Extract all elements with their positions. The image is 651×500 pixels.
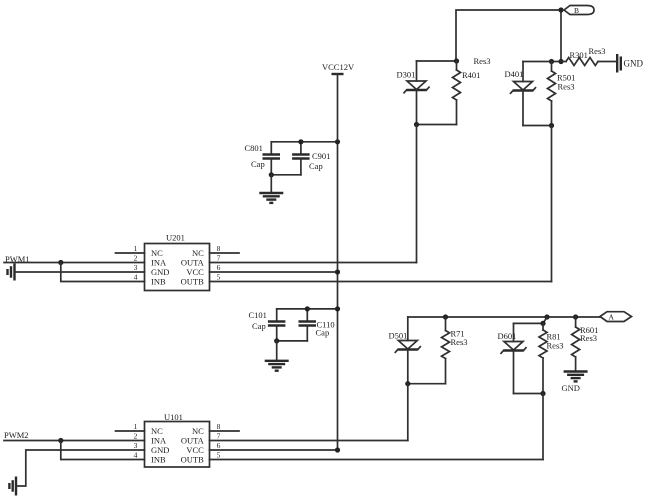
node C901 top (298, 139, 303, 144)
resistor R71 (442, 317, 450, 384)
node R71 top (443, 314, 448, 319)
wire ground to U201 GND (15, 271, 145, 273)
wire PWM1 to INB (61, 263, 145, 282)
wire U101 OUTB (210, 459, 544, 461)
wire U201 OUTB (210, 281, 552, 283)
wire PWM1 to INA (4, 262, 145, 264)
svg-text:OUTA: OUTA (181, 436, 205, 446)
wire PWM2 to INB (61, 441, 145, 460)
svg-text:D601: D601 (498, 331, 517, 341)
svg-text:7: 7 (217, 432, 221, 441)
U101 pin numbers right (217, 422, 221, 460)
svg-text:C901: C901 (312, 151, 330, 161)
wire U201 VCC to rail (210, 271, 338, 273)
node VCC lower (335, 447, 340, 452)
node C101 bottom (274, 338, 279, 343)
resistor R601 (572, 317, 580, 371)
svg-text:OUTA: OUTA (181, 258, 205, 268)
node VCC upper (335, 269, 340, 274)
node C110 top (305, 306, 310, 311)
svg-text:U201: U201 (166, 233, 185, 243)
svg-text:Res3: Res3 (451, 337, 468, 347)
wire rail bottom of D601/R81 (514, 393, 544, 395)
node at R501 top (549, 59, 554, 64)
svg-text:INB: INB (151, 455, 166, 465)
wire OUTA up to D301 group (416, 125, 418, 263)
svg-text:8: 8 (217, 244, 221, 253)
resistor R401 (453, 61, 461, 125)
wire top rail caps lower (277, 308, 338, 310)
svg-text:INA: INA (151, 436, 167, 446)
wire OUTB up to D401 group (551, 126, 553, 282)
node junction B (558, 7, 563, 12)
wire to upper ground (270, 175, 272, 192)
svg-text:1: 1 (134, 244, 138, 253)
svg-text:VCC: VCC (186, 267, 204, 277)
port A (600, 312, 632, 322)
IC U101 (145, 422, 210, 468)
svg-text:OUTB: OUTB (181, 277, 204, 287)
node bottom D301 (414, 122, 419, 127)
svg-text:Cap: Cap (309, 161, 323, 171)
node at B drop (558, 59, 563, 64)
wire rail top of D601 (514, 317, 548, 323)
wire rail bottom of D501/R71 (408, 383, 446, 385)
svg-text:5: 5 (217, 451, 221, 460)
svg-text:Cap: Cap (316, 328, 330, 338)
svg-text:C101: C101 (249, 310, 267, 320)
wire rail bottom of D401/R501 (523, 125, 552, 127)
wire PWM2 to INA (4, 440, 145, 442)
wire U101 OUTA (210, 440, 408, 442)
svg-text:PWM2: PWM2 (4, 430, 29, 440)
svg-text:6: 6 (217, 263, 221, 272)
ground lower caps (265, 361, 289, 371)
node PWM2 branch (58, 438, 63, 443)
svg-text:GND: GND (151, 267, 169, 277)
wire U101 VCC to rail (210, 449, 338, 451)
svg-text:Res3: Res3 (547, 341, 564, 351)
svg-text:NC: NC (192, 248, 204, 258)
svg-text:4: 4 (134, 273, 138, 282)
diode D501 (395, 317, 420, 384)
svg-text:NC: NC (151, 426, 163, 436)
diode D301 (404, 61, 429, 125)
svg-text:2: 2 (134, 432, 138, 441)
diode D601 (501, 323, 526, 393)
wire bottom rail caps lower (277, 340, 308, 342)
U201 pin 1 stub (116, 252, 145, 254)
capacitor C801 (263, 142, 281, 175)
port B (564, 6, 594, 15)
node bottom D501 (405, 381, 410, 386)
wire ground to U101 GND (16, 450, 145, 486)
node R81 top (544, 314, 549, 319)
node bottom R501 (549, 123, 554, 128)
node at R401 top (454, 58, 459, 63)
svg-text:A: A (609, 313, 615, 322)
svg-text:Res3: Res3 (580, 333, 597, 343)
svg-text:B: B (574, 6, 579, 15)
svg-text:R401: R401 (462, 70, 480, 80)
node rail VCC upper caps (335, 139, 340, 144)
node bottom R81 (540, 391, 545, 396)
svg-text:Cap: Cap (251, 159, 265, 169)
wire rail bottom of D301/R401 (417, 124, 457, 126)
wire to lower ground (276, 341, 278, 360)
wire top rail caps upper (271, 141, 337, 143)
diode D401 (511, 62, 536, 126)
svg-text:U101: U101 (164, 412, 183, 422)
node PWM1 branch (58, 260, 63, 265)
U201 pin 8 stub (210, 252, 240, 254)
ground R601 (564, 372, 588, 382)
wire OUTA lower up (407, 384, 409, 441)
wire bottom rail caps upper (271, 174, 301, 176)
wire VCC12V rail (337, 74, 339, 450)
U101 pin 1 stub (116, 430, 145, 432)
svg-text:6: 6 (217, 441, 221, 450)
capacitor C101 (268, 309, 286, 341)
svg-text:1: 1 (134, 422, 138, 431)
U201 pin numbers right (217, 244, 221, 282)
svg-text:7: 7 (217, 254, 221, 263)
svg-text:NC: NC (151, 248, 163, 258)
power port GND right (617, 54, 643, 73)
svg-text:NC: NC (192, 426, 204, 436)
U101 pin numbers left (134, 422, 138, 460)
svg-text:Res3: Res3 (589, 46, 606, 56)
U201 pin numbers left (134, 244, 138, 282)
wire main lower net to port A (408, 316, 600, 318)
resistor R81 (539, 323, 547, 393)
svg-text:VCC12V: VCC12V (322, 62, 355, 72)
capacitor C901 (292, 142, 310, 175)
power port VCC12V (322, 62, 355, 74)
wire rail top of D401/R501 (523, 61, 561, 63)
resistor R501 (548, 62, 556, 126)
svg-text:8: 8 (217, 422, 221, 431)
svg-text:Res3: Res3 (474, 56, 491, 66)
svg-text:D501: D501 (389, 331, 408, 341)
resistor R301 (561, 58, 617, 66)
node rail VCC lower caps (335, 306, 340, 311)
ground upper caps (259, 193, 283, 203)
wire OUTB lower up (542, 394, 544, 460)
svg-text:Cap: Cap (252, 321, 266, 331)
svg-text:D401: D401 (505, 69, 524, 79)
ground PWM1 (8, 264, 15, 281)
svg-text:5: 5 (217, 273, 221, 282)
svg-text:OUTB: OUTB (181, 455, 204, 465)
svg-text:GND: GND (151, 445, 169, 455)
wire top net to port B (456, 10, 561, 62)
svg-text:GND: GND (624, 59, 644, 69)
ground PWM2 (9, 477, 16, 496)
capacitor C110 (299, 309, 317, 341)
IC U201 (145, 244, 210, 291)
node D601 rail (540, 321, 545, 326)
svg-text:2: 2 (134, 254, 138, 263)
U101 pin 8 stub (210, 430, 240, 432)
svg-text:D301: D301 (397, 70, 416, 80)
svg-text:C801: C801 (245, 143, 263, 153)
svg-text:INA: INA (151, 258, 167, 268)
svg-text:VCC: VCC (186, 445, 204, 455)
svg-text:3: 3 (134, 441, 138, 450)
svg-text:4: 4 (134, 451, 138, 460)
svg-text:INB: INB (151, 277, 166, 287)
wire U201 OUTA (210, 262, 417, 264)
node C801 bottom (269, 172, 274, 177)
node A drop (573, 314, 578, 319)
wire rail top of D301/R401 (417, 60, 457, 62)
svg-text:R301: R301 (570, 50, 588, 60)
svg-text:GND: GND (562, 383, 580, 393)
svg-text:Res3: Res3 (558, 82, 575, 92)
svg-text:3: 3 (134, 263, 138, 272)
